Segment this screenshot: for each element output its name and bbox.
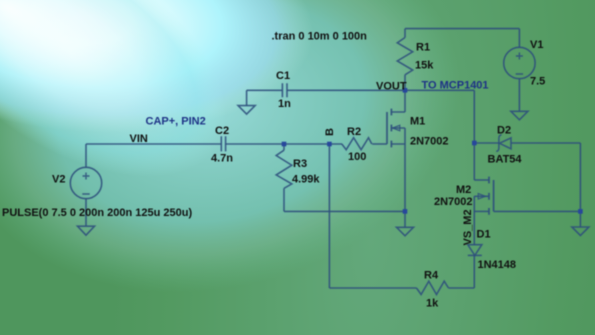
diode D1 cathode bar: [468, 254, 482, 256]
wire C1 ground riser: [246, 90, 248, 105]
wire M2 gate run: [494, 210, 581, 212]
ground below V1: [511, 111, 528, 120]
resistor R3: [276, 150, 292, 188]
transistor M1 stubs: [391, 112, 405, 144]
wire riser to D1: [473, 255, 475, 288]
svg-text:2N7002: 2N7002: [434, 196, 473, 208]
svg-text:VIN: VIN: [130, 133, 148, 145]
transistor M1 channel segments: [390, 109, 392, 148]
svg-text:R1: R1: [416, 42, 430, 54]
svg-text:V1: V1: [530, 39, 543, 51]
wire D1 anode to M2 source: [473, 196, 475, 244]
resistor R2: [342, 138, 372, 150]
wire R1 top rail: [405, 28, 519, 30]
wire down to D2 node: [473, 90, 475, 143]
svg-text:1n: 1n: [278, 98, 291, 110]
resistor R1: [397, 38, 412, 75]
voltage source V1: [504, 47, 535, 78]
transistor M1 gate bar: [386, 112, 388, 144]
node gnd junction: [403, 209, 408, 214]
svg-text:R4: R4: [424, 270, 439, 282]
wire M1 drain: [404, 90, 406, 112]
transistor M2 channel segments: [488, 177, 490, 215]
ground below C1: [238, 106, 255, 115]
svg-text:4.7n: 4.7n: [211, 153, 233, 165]
wire bottom rail R3 to gnd node: [284, 210, 405, 212]
capacitor C2: [221, 136, 225, 151]
transistor M2 top stub: [474, 179, 489, 181]
svg-text:PULSE(0 7.5 0 200n 200n 125u 2: PULSE(0 7.5 0 200n 200n 125u 250u): [2, 207, 192, 219]
wire D2 anode lead: [511, 142, 580, 144]
svg-text:BAT54: BAT54: [488, 154, 523, 166]
wire C2 to R2: [226, 143, 342, 145]
wire R3 top stub: [283, 144, 285, 150]
svg-text:VS_M2: VS_M2: [462, 209, 474, 245]
svg-text:C2: C2: [215, 125, 229, 137]
wire D2 cathode lead: [474, 142, 499, 144]
wire B riser down: [328, 144, 330, 288]
svg-text:15k: 15k: [415, 60, 434, 72]
wire gnd node riser: [404, 211, 406, 227]
wire R1 bottom to VOUT: [404, 75, 406, 91]
svg-text:V2: V2: [52, 174, 65, 186]
svg-text:2N7002: 2N7002: [410, 136, 449, 148]
svg-text:C1: C1: [276, 70, 290, 82]
wire right riser: [579, 143, 581, 211]
wire C1 to VOUT node: [287, 89, 405, 91]
transistor M2 bottom stub: [474, 210, 489, 212]
node VOUT: [403, 88, 408, 93]
svg-text:100: 100: [348, 151, 366, 163]
voltage source V2: [70, 167, 101, 198]
svg-text:R3: R3: [293, 158, 307, 170]
wire M2 drain riser: [473, 143, 475, 180]
svg-text:1k: 1k: [426, 298, 439, 310]
wire B to R4: [329, 287, 416, 289]
wire VIN run V2 to C2: [86, 143, 221, 145]
svg-text:4.99k: 4.99k: [292, 174, 320, 186]
svg-text:B: B: [324, 128, 336, 136]
wire R1 top stub: [404, 29, 406, 38]
svg-text:1N4148: 1N4148: [478, 259, 517, 271]
svg-text:M1: M1: [410, 116, 425, 128]
ground below M1 source: [397, 227, 414, 236]
svg-text:.tran 0 10m 0 100n: .tran 0 10m 0 100n: [272, 31, 368, 43]
transistor M2 gate bar: [493, 180, 495, 211]
wire V2 riser: [85, 144, 87, 167]
ground below V2: [78, 226, 95, 235]
wire V2 to ground: [85, 199, 87, 226]
svg-text:R2: R2: [347, 126, 361, 138]
svg-text:VOUT: VOUT: [376, 80, 407, 92]
node right gnd junction: [578, 209, 583, 214]
svg-text:CAP+, PIN2: CAP+, PIN2: [146, 116, 206, 128]
node C2-R3 junction: [282, 142, 287, 147]
diode D1 triangle: [468, 245, 482, 256]
wire V1 riser: [518, 29, 520, 48]
svg-text:D1: D1: [477, 229, 491, 241]
wire C1 left to ground riser: [247, 89, 283, 91]
node B: [327, 142, 332, 147]
wire M1 source down: [404, 128, 406, 211]
wire right gnd stub: [579, 211, 581, 227]
transistor M2 mid stub: [474, 195, 489, 197]
capacitor C1: [282, 83, 287, 97]
wire VOUT to right: [405, 89, 474, 91]
node D2 cathode junction: [472, 141, 477, 146]
wire R2 to M1 gate: [372, 143, 387, 145]
transistor M2 body arrow: [478, 194, 485, 199]
resistor R4: [417, 281, 449, 294]
wire V1 bottom: [518, 79, 520, 112]
svg-text:TO MCP1401: TO MCP1401: [422, 79, 489, 91]
diode D2 triangle: [500, 138, 512, 149]
svg-text:D2: D2: [497, 125, 511, 137]
transistor M1 body arrow: [393, 125, 400, 130]
svg-text:M2: M2: [456, 184, 471, 196]
diode D2 schottky bar: [496, 135, 501, 152]
ground right: [572, 227, 589, 236]
wire R4 to riser: [449, 287, 475, 289]
svg-text:7.5: 7.5: [530, 76, 545, 88]
wire R3 bottom: [283, 188, 285, 211]
